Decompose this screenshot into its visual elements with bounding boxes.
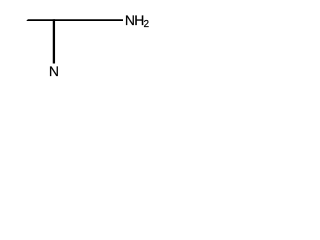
svg-text:2: 2 — [144, 19, 150, 30]
bond CH3-C2 — [26, 19, 54, 21]
bond C2-N(bottom) — [53, 19, 55, 63]
bond C2-CH2(NH2) — [54, 19, 123, 21]
svg-text:N: N — [49, 63, 59, 79]
